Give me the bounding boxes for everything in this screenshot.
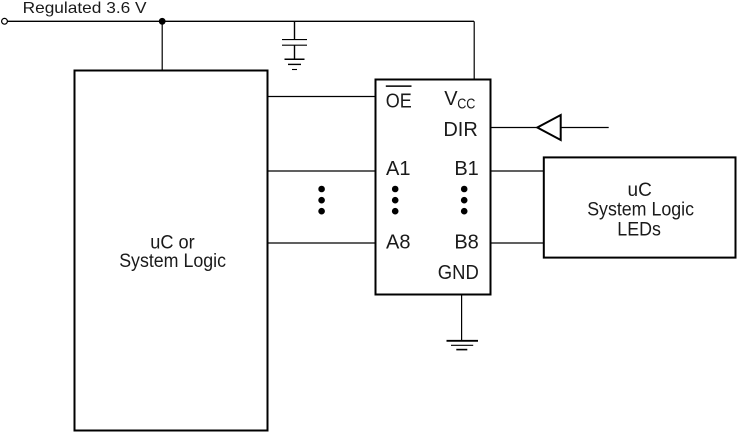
svg-text:GND: GND	[438, 262, 479, 284]
svg-text:A8: A8	[386, 231, 410, 253]
svg-text:uC: uC	[628, 180, 652, 201]
svg-text:OE: OE	[386, 91, 412, 113]
svg-text:B8: B8	[454, 231, 478, 253]
svg-text:CC: CC	[457, 97, 475, 113]
svg-text:V: V	[444, 88, 458, 110]
svg-text:B1: B1	[454, 158, 478, 180]
svg-text:System Logic: System Logic	[587, 200, 694, 221]
svg-text:System Logic: System Logic	[119, 251, 226, 272]
svg-text:DIR: DIR	[443, 119, 477, 141]
svg-text:LEDs: LEDs	[617, 220, 661, 241]
svg-text:Regulated 3.6 V: Regulated 3.6 V	[23, 0, 147, 17]
svg-text:A1: A1	[386, 158, 410, 180]
